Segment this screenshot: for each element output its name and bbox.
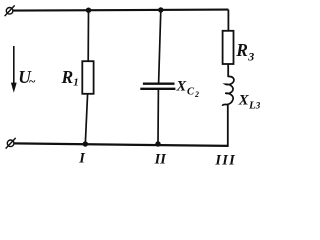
svg-text:X: X bbox=[176, 78, 187, 94]
node junction dot top of branch I bbox=[86, 8, 91, 13]
terminal bottom-left input bbox=[6, 138, 16, 149]
svg-text:3: 3 bbox=[247, 49, 254, 63]
label XC2 bbox=[176, 78, 200, 99]
label R3 bbox=[235, 40, 254, 63]
wire branch I upper segment bbox=[87, 10, 89, 61]
svg-text:X: X bbox=[238, 92, 250, 108]
svg-text:L: L bbox=[248, 100, 256, 112]
resistor R1 bbox=[82, 61, 93, 94]
svg-text:3: 3 bbox=[255, 101, 261, 111]
label XL3 bbox=[238, 92, 261, 111]
svg-text:C: C bbox=[187, 86, 195, 97]
capacitor C2 bottom plate bbox=[140, 88, 175, 90]
terminal top-left input bbox=[5, 5, 15, 16]
wire branch III top vertical from bus to R3 bbox=[227, 10, 229, 31]
svg-text:R: R bbox=[235, 40, 248, 60]
wire branch I lower segment bbox=[85, 94, 87, 144]
wire bottom bus bbox=[14, 143, 229, 146]
svg-text:R: R bbox=[61, 67, 74, 87]
label U~ bbox=[18, 67, 35, 88]
resistor R3 bbox=[223, 31, 234, 64]
svg-text:III: III bbox=[214, 152, 236, 167]
inductor L3 coil bbox=[223, 76, 234, 105]
svg-text:~: ~ bbox=[29, 74, 36, 88]
wire top bus bbox=[13, 10, 229, 11]
svg-text:II: II bbox=[154, 152, 168, 167]
source voltage arrow U~ bbox=[11, 46, 17, 93]
svg-text:2: 2 bbox=[194, 90, 199, 99]
label R1 bbox=[61, 67, 79, 88]
capacitor C2 top plate bbox=[143, 83, 175, 85]
wire branch III bottom vertical from L3 to bus bbox=[227, 105, 229, 146]
node junction dot top of branch II bbox=[158, 7, 163, 12]
wire branch II lower segment bbox=[157, 89, 159, 144]
wire between R3 and L3 bbox=[227, 64, 229, 77]
wire branch II upper segment bbox=[159, 10, 161, 83]
svg-text:1: 1 bbox=[73, 77, 79, 89]
node junction dot bottom of branch I bbox=[83, 141, 88, 146]
node junction dot bottom of branch II bbox=[155, 141, 160, 146]
